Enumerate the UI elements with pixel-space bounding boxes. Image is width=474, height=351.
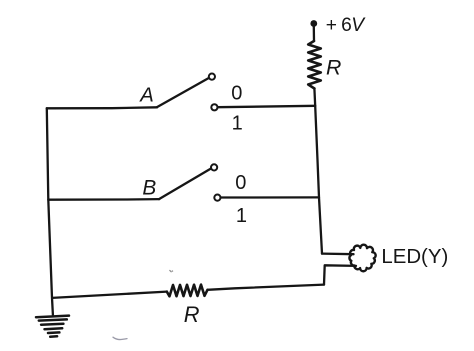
- svg-text:1: 1: [232, 113, 243, 135]
- resistor R2 (horizontal zigzag, series R): [167, 285, 208, 297]
- svg-text:LED(Y): LED(Y): [381, 246, 448, 268]
- wire: left vertical bus: [47, 108, 53, 314]
- switch B lower contact (open circle, position 1): [214, 195, 220, 201]
- svg-text:0: 0: [235, 172, 246, 194]
- switch B upper contact (open circle, position 0): [211, 164, 217, 170]
- svg-text:0: 0: [231, 82, 242, 104]
- wire: bottom horizontal from LED drop to resistor R2 right lead: [208, 285, 325, 290]
- wire: right vertical bus from R1 bottom to LED top corner: [314, 89, 322, 254]
- svg-text:A: A: [139, 84, 154, 106]
- svg-text:+ 6V: + 6V: [326, 15, 366, 36]
- switch A upper contact (open circle, position 0): [209, 74, 215, 80]
- svg-text:R: R: [326, 55, 341, 79]
- wire: switch A horizontal from left bus to pivot: [47, 107, 157, 108]
- switch B arm (open, thrown up): [159, 168, 211, 199]
- switch A arm (open, thrown up): [157, 78, 209, 108]
- svg-text:R: R: [184, 302, 200, 327]
- wire from switch B lower contact to right bus: [221, 196, 319, 198]
- wire: switch B horizontal from left bus to pivot: [48, 198, 159, 201]
- switch A lower contact (open circle, position 1): [211, 104, 217, 110]
- LED(Y) lamp (scalloped bulb): [349, 245, 375, 272]
- wire: bottom horizontal from R2 left lead to ground junction: [52, 292, 167, 298]
- stray scan mark below ground: [113, 337, 127, 339]
- stray scan mark near R2: [170, 270, 173, 271]
- svg-text:1: 1: [236, 205, 247, 227]
- wire from switch A lower contact to right bus: [218, 106, 316, 107]
- wire from +6V dot to resistor R1 top: [313, 27, 316, 42]
- wire: LED cathode stub (bottom) and drop to bottom wire: [324, 265, 356, 284]
- resistor R1 (vertical zigzag, pull-up R): [308, 41, 321, 89]
- node +6V supply dot: [310, 20, 317, 27]
- ground symbol: [36, 316, 69, 337]
- svg-text:B: B: [142, 177, 156, 200]
- wire: LED anode stub (top): [322, 252, 354, 255]
